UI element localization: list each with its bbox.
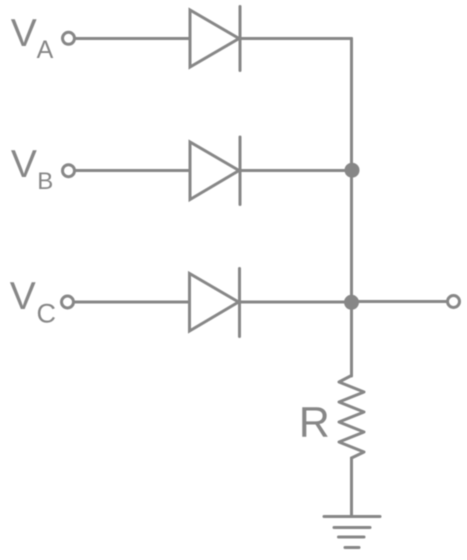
svg-text:A: A <box>37 36 54 64</box>
label VC <box>10 275 56 328</box>
wire VB to diode D2 anode <box>76 169 191 172</box>
wire resistor to ground <box>350 458 353 516</box>
label VA <box>11 12 54 64</box>
svg-text:C: C <box>37 298 57 328</box>
label VB <box>11 143 53 195</box>
junction dot node C / output node <box>344 295 359 310</box>
diode D2 <box>190 137 240 205</box>
wire D2 cathode to bus <box>240 169 352 172</box>
svg-text:B: B <box>37 168 53 195</box>
junction dot node B <box>345 163 360 178</box>
terminal VA <box>63 32 75 44</box>
svg-text:V: V <box>11 12 37 55</box>
svg-text:V: V <box>10 275 36 318</box>
wire output <box>352 300 448 303</box>
diode D1 <box>190 7 240 71</box>
terminal VC <box>62 296 74 308</box>
output terminal <box>448 296 460 308</box>
wire D3 cathode to bus <box>240 301 352 304</box>
svg-text:R: R <box>299 399 330 447</box>
wire VA to diode D1 anode <box>76 37 191 40</box>
resistor R <box>339 376 364 459</box>
label R <box>299 399 330 447</box>
wire D1 cathode to bus corner <box>240 37 352 40</box>
terminal VB <box>63 165 75 177</box>
ground <box>324 517 380 548</box>
svg-text:V: V <box>11 143 37 186</box>
wire VC to diode D3 anode <box>75 301 190 304</box>
diode D3 <box>190 269 240 337</box>
wire bus vertical <box>350 39 353 377</box>
